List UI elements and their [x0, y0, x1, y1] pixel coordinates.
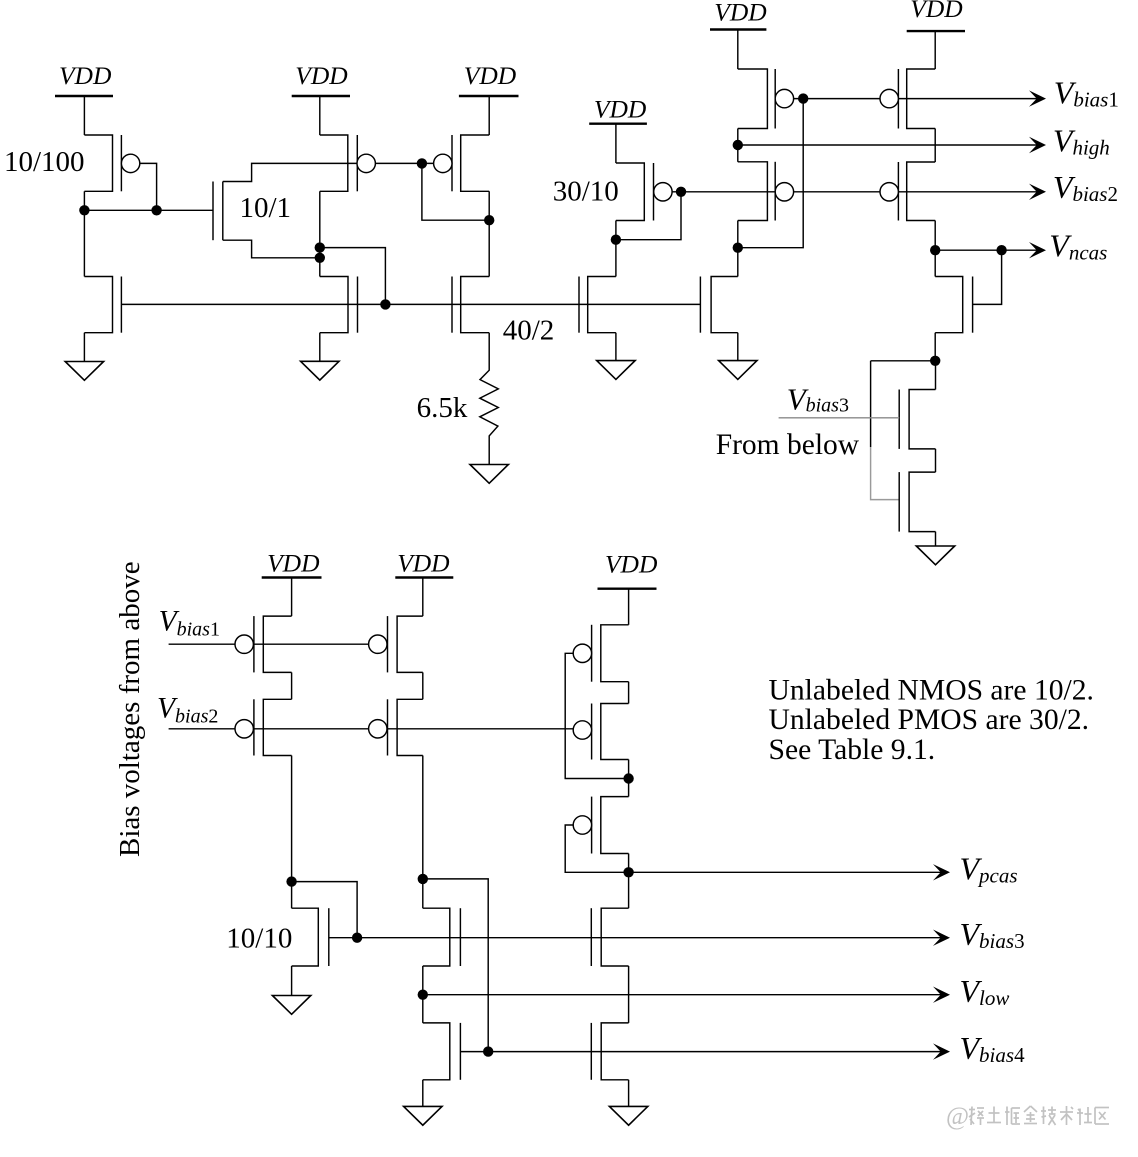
label 10/100 — [4, 146, 85, 178]
svg-text:VDD: VDD — [594, 94, 647, 123]
gate bubble M19 — [235, 720, 253, 738]
wire M2 source to ground — [83, 333, 85, 362]
label Vbias4 output — [960, 1030, 1026, 1067]
wire Vpcas output line — [629, 871, 942, 873]
junction Vncas gate tie — [996, 245, 1006, 255]
resistor R1 6.5k — [480, 333, 499, 465]
wire M3 drain to PMOS gates — [223, 163, 434, 181]
wire M19 drain / leg B1 vertical — [291, 756, 293, 909]
junction M6 drain — [484, 215, 494, 225]
wire Vlow output line — [423, 994, 942, 996]
wire M5 source to ground — [319, 333, 321, 362]
transistor M14 PMOS far-right bottom — [898, 162, 935, 221]
wire M4 drain / leg2 vertical — [319, 191, 321, 276]
wire Vbias2 line — [672, 191, 1038, 193]
ground leg2 — [301, 361, 339, 380]
wire M26 drain / node D vertical — [628, 760, 630, 797]
wire Vbias3 output line — [329, 937, 942, 939]
gate bubble M26 — [573, 721, 591, 739]
wire M28 source to M29 drain — [628, 966, 630, 1023]
wire node B tap to gate line — [320, 248, 386, 305]
VDD rail far-right leg — [907, 0, 965, 31]
svg-text:VDD: VDD — [295, 61, 348, 90]
junction node B upper — [315, 242, 325, 252]
transistor M16 NMOS Vbias3 upper — [899, 390, 935, 449]
label Vbias1 input — [159, 606, 220, 641]
wire M25 gate tie to node D — [565, 653, 628, 778]
svg-text:Unlabeled PMOS are 30/2.: Unlabeled PMOS are 30/2. — [769, 704, 1090, 736]
wire Vhigh line — [738, 144, 1038, 146]
wire M17 source to ground — [935, 532, 937, 546]
wire M15 source to node C — [934, 333, 936, 361]
wire M20 source to ground — [291, 966, 293, 996]
arrowhead Vlow — [933, 987, 950, 1003]
arrowhead Vbias3 — [933, 930, 950, 946]
junction Vncas node left — [930, 245, 940, 255]
transistor M25 PMOS C1 — [592, 625, 629, 682]
transistor M24 NMOS B2 lower — [423, 1023, 461, 1080]
label bias voltages from above — [114, 561, 146, 857]
junction M8 gate on Vbias2 — [676, 187, 686, 197]
wire M27 gate tie to Vpcas node — [565, 825, 628, 872]
transistor M19 PMOS B1 bottom — [254, 699, 292, 755]
wire Vncas line — [935, 249, 1038, 251]
wire node C to M17 gate — [871, 361, 936, 500]
wire VDD to M4 source — [319, 96, 321, 135]
ground leg5 — [719, 361, 757, 380]
gate bubble M10 — [775, 89, 793, 107]
junction node C — [930, 356, 940, 366]
arrowhead Vncas — [1029, 242, 1046, 258]
label Vbias3 from below — [787, 382, 849, 417]
label 10/10 — [226, 923, 292, 955]
gate bubble M22 — [369, 720, 387, 738]
wire M10 drain to M11 source — [737, 129, 739, 162]
svg-text:See Table 9.1.: See Table 9.1. — [769, 734, 936, 766]
transistor M6 PMOS leg3 — [452, 135, 489, 191]
VDD rail leg3 — [459, 61, 519, 96]
gate bubble M11 — [775, 183, 793, 201]
transistor M12 NMOS leg5 — [700, 277, 737, 333]
wire M1 gate to node A — [140, 163, 157, 210]
label 10/1 — [240, 192, 292, 224]
svg-text:10/1: 10/1 — [240, 192, 292, 224]
wire VDD to M8 source — [615, 124, 617, 163]
VDD rail leg B2 — [395, 549, 453, 578]
ground leg1 — [65, 362, 103, 381]
wire VDD to M1 source — [83, 96, 85, 135]
wire VDD to M25 source — [628, 589, 630, 625]
wire M6 gate-drain diode connection — [422, 163, 489, 220]
label Vhigh output — [1053, 122, 1110, 159]
gate bubble M18 — [235, 635, 253, 653]
wire M29 source to ground — [628, 1080, 630, 1107]
gate bubble M1 — [121, 154, 139, 172]
VDD rail leg2 — [292, 61, 350, 96]
wire M12 source to ground — [737, 333, 739, 361]
junction M8 drain — [611, 235, 621, 245]
svg-text:VDD: VDD — [267, 549, 320, 578]
wire M3 source to node B — [223, 240, 320, 258]
wire M11 drain / leg5 vertical — [737, 221, 739, 277]
svg-text:VDD: VDD — [464, 61, 517, 90]
wire M8 drain / leg4 vertical — [615, 221, 617, 277]
svg-text:VDD: VDD — [605, 550, 658, 579]
svg-text:Bias voltages from above: Bias voltages from above — [114, 561, 146, 857]
transistor M17 NMOS Vbias3 lower — [899, 472, 935, 531]
arrowhead Vbias4 — [933, 1043, 950, 1059]
wire B1 drain to Vbias3 line — [292, 882, 358, 938]
label 6.5k — [417, 392, 468, 424]
VDD rail Vbias1 leg — [710, 0, 767, 30]
svg-text:10/10: 10/10 — [226, 923, 292, 955]
ground leg4 — [597, 361, 635, 380]
label Vbias2 output — [1053, 169, 1118, 206]
junction M6 gate wire — [417, 158, 427, 168]
svg-text:40/2: 40/2 — [503, 315, 555, 347]
wire Vbias1 input line — [169, 643, 369, 645]
wire M8 gate-drain diode connection — [616, 192, 681, 240]
junction Vpcas node — [623, 867, 633, 877]
wire M18 drain to M19 source — [291, 672, 293, 699]
transistor M13 PMOS far-right top — [898, 69, 935, 129]
wire Vbias4 output line — [460, 1051, 942, 1053]
wire Vbias1 gate tie to M11 drain — [738, 99, 803, 248]
wire M13 drain to M14 source — [934, 129, 936, 163]
VDD rail 30/10 leg — [589, 94, 647, 123]
transistor M11 PMOS bottom of Vbias1 leg — [738, 162, 775, 221]
label Vpcas output — [960, 851, 1018, 888]
transistor M9 NMOS leg4 — [579, 277, 616, 333]
gate bubble M4 — [357, 154, 375, 172]
transistor M29 NMOS C lower — [591, 1023, 628, 1080]
transistor M23 NMOS B2 upper — [423, 908, 461, 966]
junction node B lower — [315, 253, 325, 263]
wire VDD to M21 source — [422, 578, 424, 617]
wire VDD to M18 source — [291, 578, 293, 617]
arrowhead Vbias1 — [1029, 90, 1046, 106]
wire VDD to M10 source — [737, 30, 739, 70]
note line 2 — [769, 704, 1090, 736]
gate bubble M13 — [880, 89, 898, 107]
wire M25 drain to M26 source — [628, 682, 630, 704]
svg-text:Unlabeled NMOS are 10/2.: Unlabeled NMOS are 10/2. — [769, 675, 1094, 707]
transistor M27 PMOS C3 — [592, 797, 629, 854]
ground 10/10 leg — [272, 996, 310, 1015]
wire Vbias1 line — [794, 98, 1038, 100]
wire M14 drain to Vncas node — [934, 221, 936, 277]
svg-text:@: @ — [946, 1103, 969, 1130]
junction gate-line tap — [380, 299, 390, 309]
wire Vbias2 input line — [169, 728, 574, 730]
junction node A left — [79, 205, 89, 215]
transistor M4 PMOS leg2 — [320, 135, 358, 191]
label 30/10 — [553, 176, 619, 208]
VDD rail leg C — [598, 550, 658, 589]
junction B2 drain node — [418, 874, 428, 884]
junction B1 drain node — [286, 876, 296, 886]
junction Vhigh node — [733, 140, 743, 150]
transistor M20 NMOS 10/10 — [292, 908, 329, 966]
wire M9 source to ground — [615, 333, 617, 361]
transistor M2 NMOS leg1 — [84, 277, 121, 333]
transistor M18 PMOS B1 top — [254, 616, 292, 672]
ground leg C — [609, 1106, 647, 1125]
wire VDD to M6 source — [488, 96, 490, 135]
wire VDD to M13 source — [934, 31, 936, 69]
svg-text:10/100: 10/100 — [4, 146, 85, 178]
arrowhead Vhigh — [1029, 137, 1046, 153]
wire M24 source to ground — [422, 1080, 424, 1107]
junction Vlow node — [418, 990, 428, 1000]
note line 3 — [769, 734, 936, 766]
junction Vbias3 line tap — [352, 933, 362, 943]
ground resistor leg — [470, 465, 508, 484]
gate bubble M6 — [434, 154, 452, 172]
transistor M26 PMOS C2 — [592, 704, 629, 760]
arrowhead Vpcas — [933, 864, 950, 880]
label From below — [716, 429, 860, 461]
svg-text:VDD: VDD — [397, 549, 450, 578]
junction Vbias1 gate tie — [798, 93, 808, 103]
transistor M22 PMOS B2 bottom — [388, 699, 423, 755]
transistor M5 NMOS leg2 — [320, 277, 358, 333]
wire node A horizontal — [84, 209, 213, 211]
transistor M21 PMOS B2 top — [388, 616, 423, 672]
svg-text:VDD: VDD — [59, 61, 112, 90]
junction M11 drain node — [733, 243, 743, 253]
wire M16 source to M17 drain — [935, 449, 937, 472]
svg-text:VDD: VDD — [714, 0, 767, 26]
transistor M10 PMOS top of Vbias1 leg — [738, 69, 775, 129]
label Vlow output — [960, 973, 1010, 1010]
gate bubble M14 — [880, 183, 898, 201]
svg-text:6.5k: 6.5k — [417, 392, 468, 424]
watermark — [946, 1103, 1109, 1130]
gate bubble M25 — [573, 644, 591, 662]
wire Vbias3 from below — [779, 417, 900, 419]
label Vbias1 output — [1054, 74, 1119, 111]
wire M6 drain / leg3 vertical — [488, 191, 490, 276]
gate bubble M21 — [369, 635, 387, 653]
wire M15 gate to Vncas — [973, 250, 1002, 304]
wire M21 drain to M22 source — [422, 672, 424, 699]
gate bubble M8 — [654, 183, 672, 201]
ground leg B2 — [404, 1106, 442, 1125]
junction node D — [623, 773, 633, 783]
transistor M8 PMOS 30/10 — [616, 163, 654, 221]
svg-text:VDD: VDD — [910, 0, 963, 23]
wire Vpcas node down to M28 — [628, 872, 630, 908]
svg-text:30/10: 30/10 — [553, 176, 619, 208]
transistor M15 NMOS cascode — [935, 277, 972, 333]
junction node A gate tie — [151, 205, 161, 215]
transistor M1 PMOS 10/100 — [84, 135, 121, 191]
wire B2 drain to Vbias4 line — [423, 879, 488, 1052]
wire NMOS mirror gate line — [121, 303, 700, 305]
arrowhead Vbias2 — [1029, 184, 1046, 200]
VDD rail leg1 — [55, 61, 113, 96]
wire M1 drain / leg1 vertical — [83, 191, 85, 276]
note line 1 — [769, 675, 1094, 707]
label Vbias2 input — [157, 693, 218, 728]
wire M23 source to Vlow node — [422, 966, 424, 1023]
transistor M7 NMOS 40/2 — [452, 277, 489, 333]
junction Vbias4 line tap — [483, 1046, 493, 1056]
transistor M3 NMOS 10/1 — [213, 182, 223, 241]
label Vbias3 output — [960, 916, 1025, 953]
wire M22 drain / leg B2 vertical — [422, 756, 424, 909]
gate bubble M27 — [573, 816, 591, 834]
svg-text:From below: From below — [716, 429, 860, 461]
label 40/2 — [503, 315, 555, 347]
wire node C to M16 drain — [935, 361, 937, 390]
label Vncas output — [1049, 228, 1107, 265]
transistor M28 NMOS C upper — [591, 908, 628, 966]
ground Vbias3 stack — [916, 546, 954, 565]
VDD rail leg B1 — [262, 549, 322, 578]
wire M27 drain to Vpcas node — [628, 854, 630, 873]
